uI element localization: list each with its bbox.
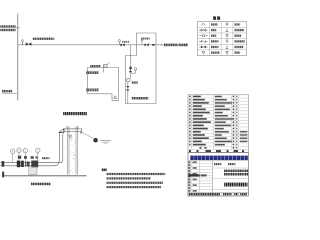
node : legend row 4 symbols — [202, 40, 206, 42]
label : low water level mark — [86, 88, 99, 90]
label : legend row 6 name left — [211, 51, 219, 53]
valve : dark valve on pump line — [17, 161, 20, 168]
label : material row 1 — [189, 96, 237, 98]
label : material row 14 — [189, 137, 247, 139]
label : 水泵 pump label — [132, 81, 138, 83]
valve : float valve at tank inlet — [103, 64, 105, 72]
label : DN label above pipe — [42, 157, 49, 159]
valve : check valve below pump (dark) — [126, 86, 129, 91]
label : note line 1 — [107, 173, 166, 175]
valve : fittings inside top narrow shaft on pipe — [141, 41, 143, 45]
label : material row 12 — [189, 131, 247, 133]
label : material row 9 — [189, 121, 237, 123]
label : high water level mark — [86, 70, 99, 72]
label : note line 4 — [107, 186, 161, 188]
node : flow arrow tick on pipe — [152, 44, 154, 46]
label : material row 17 — [200, 147, 238, 149]
label : legend row 1 name right — [235, 23, 241, 25]
node : flange + reducer — [25, 161, 26, 166]
label : DN20 above shaft fittings — [141, 38, 150, 40]
label : certificate text bottom left — [189, 193, 220, 195]
label : legend row 6 name right — [235, 51, 241, 53]
wire : pipe pump to bottom — [127, 82, 129, 104]
label : material row 15 — [189, 141, 247, 143]
label : 自动排气阀DN20 — [33, 38, 55, 40]
gauge : pressure gauge on main pipe — [118, 40, 120, 42]
valve : small fittings above pipe — [18, 156, 21, 159]
label : material row 8 — [189, 118, 237, 120]
node : legend row 3 right symbol — [226, 35, 228, 37]
label : project name two lines — [224, 170, 248, 173]
label : small cells above project — [214, 163, 222, 165]
label : DN70 above valve — [122, 41, 129, 43]
valve : automatic air vent group on branch — [22, 41, 24, 45]
label : notes header 说明 — [102, 169, 107, 172]
label : legend row 1 name left — [211, 23, 218, 25]
label : material row 3 — [189, 102, 237, 104]
gauge : four gauges above pump line — [10, 149, 15, 154]
label : material row 4 — [189, 105, 237, 107]
node : legend row 2 right symbol — [226, 29, 228, 32]
label : sheet count row — [189, 150, 244, 152]
label : material row 13 — [189, 134, 247, 136]
label : legend row 3 name left — [211, 35, 217, 37]
label : material row 10 — [189, 125, 237, 127]
pump : circle pump symbol U1 — [127, 78, 131, 82]
valve : fitting over foundation — [31, 161, 38, 168]
label : room label inside body bottom — [132, 97, 149, 100]
label : float valve label — [90, 65, 100, 67]
node : 1F floor label bottom of riser — [2, 90, 12, 92]
label : caption under floor — [31, 183, 51, 186]
wall : stipple texture — [69, 127, 75, 173]
label : note line 2 — [107, 177, 151, 179]
wire : drop pipe from main into pump — [129, 45, 131, 68]
label : scale cells bottom right — [223, 193, 232, 195]
wall : concrete column section (double lines) — [67, 126, 69, 175]
wire : leader tick to riser — [16, 27, 20, 29]
node : floor level label top-left (two text lines) — [0, 25, 15, 27]
wire : left riser supply pipe — [17, 14, 19, 101]
wire : horizontal main pipe — [18, 44, 162, 46]
gauge : pressure gauge beside pump pipe — [134, 68, 137, 71]
label : material row 11 — [189, 128, 237, 130]
label : detail drawing title (bold) — [63, 112, 87, 115]
pipe : vertical riser of detail — [58, 135, 60, 160]
tank : water reservoir rectangle — [88, 68, 119, 101]
label : pipe destination text right end — [161, 44, 163, 46]
node : legend row 4 right symbol — [226, 40, 228, 42]
node : legend row 6 symbols — [202, 52, 205, 55]
label : material row 2 — [189, 99, 237, 101]
label : legend row 2 name left — [211, 29, 217, 31]
wire : floor line — [4, 175, 87, 177]
node : sleeve ticks at wall top — [66, 127, 68, 129]
node : legend table frame — [197, 22, 246, 56]
node : legend row 5 right symbol — [226, 46, 228, 49]
label : material row 5 — [189, 108, 237, 110]
node : legend row 5 symbols — [201, 46, 203, 48]
label : drawing title bold — [224, 183, 247, 187]
label : legend row 3 name right — [235, 35, 242, 37]
label : note line 3 — [107, 182, 163, 184]
node : legend row 1 symbols — [201, 23, 205, 25]
pipe : lower pump assembly double line — [1, 161, 58, 163]
label : signature cell texts — [189, 161, 197, 191]
node : legend row 6 right symbol — [226, 52, 228, 54]
pipe : elbow to horizontal pump line — [54, 160, 60, 166]
node : elbow flange marks — [59, 132, 64, 133]
node : pipe end cap at left wall — [2, 161, 5, 166]
node : title block frame — [188, 153, 249, 196]
valve : dark valve on main pipe before tank — [121, 43, 125, 46]
node : title block right area lines — [213, 167, 249, 169]
valve : gate valve above pump (dark) — [129, 68, 132, 72]
label : legend row 4 name right — [235, 40, 245, 42]
pipe : top horizontal suction pipe through wall — [59, 129, 81, 136]
node : float ball in reservoir — [93, 138, 98, 143]
node : legend row 1 right symbol — [226, 23, 228, 25]
label : legend row 2 name right — [235, 29, 245, 31]
node : material table frame — [188, 95, 249, 153]
node : legend row 3 symbols — [202, 35, 205, 38]
label : institute name row (blue) — [188, 160, 249, 162]
label : material row 7 — [189, 115, 237, 117]
node : legend row 2 symbols — [201, 29, 206, 31]
label : legend header 图例 — [213, 16, 216, 19]
node : water surface marks — [100, 140, 111, 142]
node : water level triangle on wall — [69, 135, 72, 138]
label : material row 16 — [189, 144, 237, 146]
node : signature grid left — [190, 161, 192, 193]
label : material row 6 — [189, 112, 237, 114]
label : dark stamp row in signature grid — [188, 174, 206, 176]
label : legend row 5 name right — [235, 46, 244, 48]
tank : machine room / riser shaft stepped outline — [125, 33, 156, 104]
node : sump triangle mark — [114, 96, 117, 99]
pump : dark pump body on line — [21, 161, 24, 167]
label : legend row 4 name left — [211, 40, 219, 42]
label : legend row 5 name left — [211, 46, 219, 48]
node : bottom row of title block — [188, 191, 249, 193]
